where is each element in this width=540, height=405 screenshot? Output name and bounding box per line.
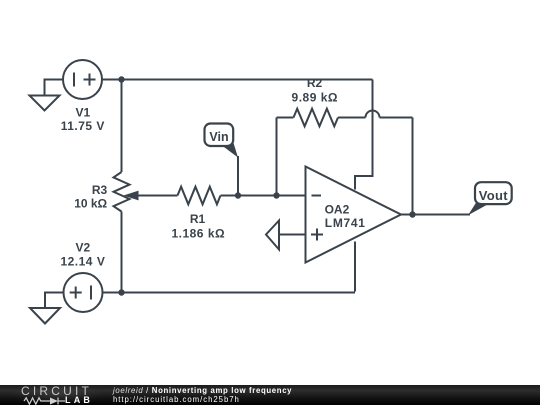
svg-text:11.75 V: 11.75 V	[61, 119, 105, 133]
svg-text:9.89 kΩ: 9.89 kΩ	[292, 91, 338, 105]
svg-text:R3: R3	[92, 183, 108, 197]
svg-text:OA2: OA2	[325, 202, 350, 216]
svg-text:V1: V1	[75, 105, 90, 119]
svg-text:R2: R2	[307, 76, 323, 90]
svg-text:LM741: LM741	[325, 216, 366, 230]
svg-text:1.186 kΩ: 1.186 kΩ	[171, 226, 225, 240]
svg-text:R1: R1	[190, 212, 206, 226]
svg-text:V2: V2	[75, 241, 90, 255]
svg-text:12.14 V: 12.14 V	[60, 255, 105, 269]
svg-text:Vout: Vout	[479, 188, 508, 203]
svg-text:Vin: Vin	[209, 130, 228, 144]
svg-text:10 kΩ: 10 kΩ	[74, 197, 107, 211]
